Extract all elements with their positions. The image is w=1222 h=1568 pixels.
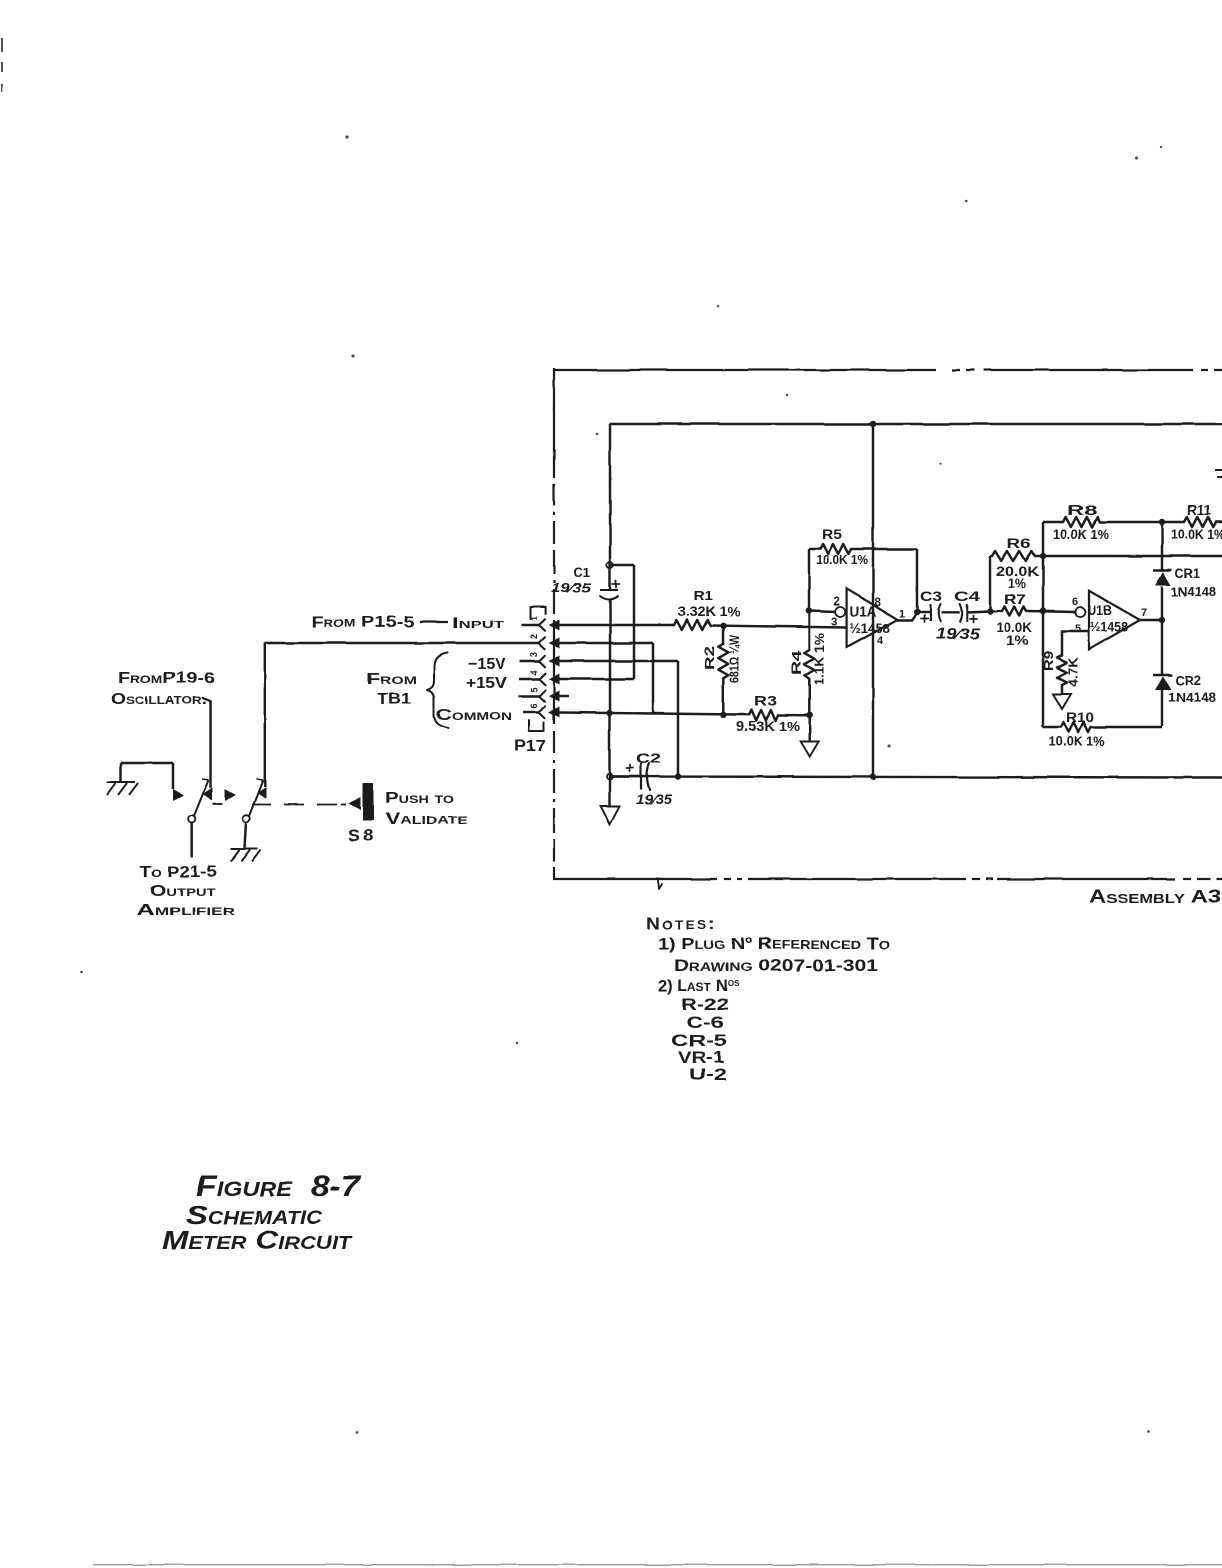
junction dot R7 / R8 vertical: [1040, 608, 1046, 614]
wire pin4 +15V horizontal: [559, 678, 634, 680]
svg-text:4: 4: [877, 635, 884, 647]
value R4 1.1K 1% (rotated): [813, 633, 827, 685]
arrowhead at switch S?A blade: [203, 788, 213, 801]
value C2 19/35: [636, 792, 673, 807]
wire R5 top right: [851, 548, 917, 550]
label C1: [573, 565, 590, 580]
value R10 10.0K 1%: [1049, 734, 1105, 749]
note last CR: [671, 1032, 727, 1050]
assembly A3 dashed border - left edge: [553, 368, 555, 879]
assembly A3 dashed border - top edge: [553, 369, 1222, 371]
svg-text:10.0K 1%: 10.0K 1%: [1171, 527, 1222, 542]
svg-text:FromP19-6: FromP19-6: [118, 670, 215, 687]
value R5 10.0K 1%: [816, 552, 868, 567]
junction dot R6 rail / R8 vertical: [1040, 553, 1046, 559]
wire R9 bottom: [1061, 685, 1063, 694]
capacitor C3: [920, 604, 940, 623]
svg-text:C-6: C-6: [686, 1014, 724, 1032]
wire input rail pin1 to R1: [559, 624, 674, 626]
resistor R6: [990, 551, 1035, 561]
label R1: [693, 588, 713, 603]
wire common rail from pin6: [559, 711, 610, 714]
pin number 2: [529, 634, 539, 639]
connector P17 pin 4 socket chevron: [539, 673, 545, 685]
connector P17 pin 4 mating arrow: [549, 674, 560, 685]
label R7: [1004, 592, 1026, 607]
wire stub left of pin 1: [521, 624, 539, 626]
svg-text:CR-5: CR-5: [671, 1032, 727, 1050]
wire stub C1 node to +15V riser: [610, 564, 634, 566]
wire CR2 top: [1161, 620, 1163, 675]
svg-text:3.32K 1%: 3.32K 1%: [678, 604, 740, 619]
pin number 4: [529, 670, 539, 675]
wire C4 to R6/R7 node: [967, 611, 990, 612]
svg-text:Notes:: Notes:: [646, 914, 717, 933]
label Push to: [385, 790, 455, 807]
label Validate: [385, 811, 468, 828]
svg-text:½1458: ½1458: [850, 620, 891, 636]
label -15V: [468, 656, 506, 673]
svg-text:19⁄35: 19⁄35: [636, 792, 673, 807]
wire R8 left top: [1043, 521, 1063, 523]
scan marks left edge: [1, 38, 3, 92]
pin label 3: [831, 617, 837, 629]
wire R5 top left: [809, 548, 820, 550]
diode CR1: [1153, 570, 1172, 586]
note last VR: [678, 1049, 724, 1067]
svg-text:6: 6: [1072, 596, 1078, 608]
note 1 line 2: [674, 957, 878, 975]
svg-text:P17: P17: [514, 738, 546, 755]
value R6 1%: [1008, 576, 1026, 591]
svg-text:3: 3: [529, 652, 539, 657]
label C4: [954, 589, 981, 604]
switch 2 blade: [249, 779, 263, 816]
svg-text:R9: R9: [1042, 651, 1056, 671]
wire output to C3: [917, 611, 930, 613]
svg-text:4.7K: 4.7K: [1067, 657, 1081, 687]
svg-text:½1458: ½1458: [1090, 620, 1128, 635]
svg-text:1%: 1%: [1006, 633, 1028, 648]
wire +15V vertical x610 (C1 top feed): [609, 424, 611, 589]
pin number 1: [529, 616, 539, 621]
connector P17 pin 6 mating arrow: [549, 707, 560, 718]
pin label 6: [1072, 596, 1078, 608]
note 1 line 1: [658, 935, 890, 953]
ground (chassis, switch 2): [231, 849, 261, 862]
mech link dashes to S8: [252, 804, 346, 806]
value R6 20.0K: [996, 564, 1039, 579]
+15V rail (inner box top): [610, 423, 1222, 425]
label TB1: [377, 691, 411, 708]
svg-text:R7: R7: [1004, 592, 1026, 607]
wire U1A output: [898, 613, 917, 620]
connector P17 pin 6 socket chevron: [539, 706, 545, 718]
wire R6 rail to right edge: [1035, 555, 1222, 557]
value CR2 1N4148: [1168, 690, 1216, 705]
label From P15-5: [311, 614, 414, 631]
svg-text:C3: C3: [920, 589, 943, 604]
value C3/C4 19/35: [936, 626, 981, 643]
label Output: [150, 883, 215, 900]
svg-text:To P21-5: To P21-5: [140, 864, 217, 881]
resistor R9: [1057, 655, 1067, 685]
svg-text:U1B: U1B: [1088, 602, 1112, 618]
diode CR2: [1153, 675, 1172, 690]
label CR1: [1175, 566, 1200, 581]
capacitor C1: [600, 580, 620, 600]
label Common: [436, 707, 512, 724]
svg-text:1.1K 1%: 1.1K 1%: [813, 633, 827, 685]
label To P21-5: [140, 864, 217, 881]
label R11: [1187, 502, 1211, 518]
svg-text:R-22: R-22: [681, 996, 729, 1014]
resistor R8: [1063, 517, 1100, 527]
svg-text:2: 2: [529, 634, 539, 639]
svg-text:R4: R4: [789, 649, 804, 675]
brace for TB1 group: [427, 653, 448, 728]
label FromP19-6: [118, 670, 215, 687]
op-amp U1B triangle: [1089, 591, 1140, 650]
ground (R9, open triangle): [1053, 694, 1071, 709]
svg-text:Common: Common: [436, 707, 512, 724]
wire U1 pin8/pin4 vertical: [872, 424, 874, 777]
wire stub left of pin 6: [523, 711, 539, 713]
svg-text:Figure 8-7: Figure 8-7: [196, 1170, 361, 1203]
svg-text:Validate: Validate: [385, 811, 468, 828]
connector P17 pin 5 socket chevron: [539, 690, 545, 702]
svg-text:1%: 1%: [1008, 576, 1026, 591]
switch 2 pivot contact: [243, 815, 250, 822]
wire C3 to C4: [941, 611, 960, 613]
svg-text:+15V: +15V: [466, 675, 507, 692]
svg-text:R5: R5: [822, 527, 843, 542]
-15V rail (bottom): [610, 777, 1222, 778]
node open dot at -15V rail x610: [607, 774, 613, 780]
connector P17 pin 3 socket chevron: [539, 655, 545, 667]
svg-text:−15V: −15V: [468, 656, 506, 673]
svg-text:5: 5: [1075, 623, 1081, 635]
wire stub left of pin 3: [520, 660, 539, 662]
pin number 6: [529, 703, 539, 708]
wire U1B output to node: [1140, 619, 1162, 621]
value R3 9.53K 1%: [736, 718, 801, 734]
junction dot -15V rail / C2 right: [675, 773, 681, 779]
svg-text:10.0K 1%: 10.0K 1%: [1049, 734, 1105, 749]
junction dot R8/R11/CR1: [1159, 519, 1165, 525]
resistor R11: [1184, 517, 1216, 527]
svg-text:Output: Output: [150, 883, 215, 900]
svg-text:681Ω ¼W: 681Ω ¼W: [728, 635, 742, 683]
value R9 4.7K (rotated): [1067, 657, 1081, 687]
wire R8 to junction: [1100, 521, 1162, 523]
svg-text:R2: R2: [702, 646, 717, 670]
note last U: [689, 1066, 727, 1084]
connector P17 outline bottom bracket: [529, 720, 544, 731]
svg-text:VR-1: VR-1: [678, 1049, 724, 1067]
wire pin2 vertical to common rail: [652, 643, 654, 714]
label Assembly A3: [1089, 886, 1221, 907]
wire pin3 -15V horizontal: [559, 660, 678, 662]
pin label 8: [875, 597, 882, 609]
value CR1 1N4148: [1171, 584, 1216, 599]
svg-text:7: 7: [1141, 607, 1147, 619]
pin label 1: [899, 608, 905, 620]
wire R7 to U1B pin6: [1027, 611, 1077, 612]
svg-text:R8: R8: [1067, 502, 1097, 518]
svg-text:5: 5: [529, 687, 539, 692]
wire CR2 bottom to R10 rail: [1161, 690, 1163, 726]
wire pin3 -15V vertical to bottom rail: [677, 661, 679, 777]
ground (chassis, left): [107, 782, 138, 795]
wire -15V rail left of C2: [610, 775, 642, 777]
U1B inverting input bubble: [1076, 607, 1086, 617]
svg-text:3: 3: [831, 617, 837, 629]
svg-text:4: 4: [529, 670, 539, 675]
label C3: [920, 589, 943, 604]
label Oscillator.: [111, 691, 207, 708]
op-amp U1A triangle: [847, 589, 898, 648]
label Input: [452, 615, 504, 632]
wire to common ground symbol: [608, 777, 610, 807]
resistor R5: [820, 544, 851, 554]
svg-text:Assembly A3: Assembly A3: [1089, 886, 1221, 907]
label R10: [1066, 710, 1094, 725]
scan speckles: [81, 135, 1163, 1433]
label S8: [348, 826, 376, 845]
resistor R4 (from pin2 node): [804, 611, 814, 679]
wire R8 left vertical x1043: [1042, 522, 1044, 727]
wire +15V riser x634 down to P17 pin4 wire: [633, 565, 635, 679]
svg-text:CR2: CR2: [1175, 673, 1201, 688]
label R2 (rotated): [702, 646, 717, 670]
junction dot output/R5: [914, 609, 920, 615]
value R7 1%: [1006, 633, 1028, 648]
connector P17 pin 3 mating arrow: [549, 656, 560, 667]
ground (R4, open triangle): [801, 741, 819, 756]
label From (TB1): [366, 671, 417, 688]
junction dot -15V rail / U1A pin4 line: [870, 774, 876, 780]
label U1B: [1088, 602, 1112, 618]
svg-text:C4: C4: [954, 589, 981, 604]
svg-text:From: From: [366, 671, 417, 688]
label C2: [636, 751, 661, 766]
svg-text:Meter Circuit: Meter Circuit: [162, 1225, 353, 1255]
svg-text:Push to: Push to: [385, 790, 455, 807]
label +15V: [466, 675, 507, 692]
svg-text:10.0K 1%: 10.0K 1%: [1053, 527, 1109, 542]
arrowhead switch 2 top: [257, 787, 266, 799]
label R4 (rotated): [789, 649, 804, 675]
label R5: [822, 527, 843, 542]
caption SCHEMATIC: [186, 1200, 323, 1230]
resistor R7: [990, 607, 1027, 616]
svg-text:From P15-5: From P15-5: [311, 614, 414, 631]
scan line bottom edge: [93, 1564, 1222, 1565]
wire switch 1 to P21-5: [190, 822, 192, 858]
svg-text:Oscillator.: Oscillator.: [111, 691, 207, 708]
resistor R10: [1061, 722, 1091, 732]
notes heading: [646, 914, 717, 933]
wire C1 bottom to common rail: [609, 599, 611, 713]
wire pin2 to bubble: [809, 611, 836, 612]
svg-text:10.0K 1%: 10.0K 1%: [816, 552, 868, 567]
wire CR1 bottom to output node: [1161, 587, 1163, 621]
svg-text:19⁄35: 19⁄35: [551, 580, 592, 595]
svg-text:19⁄35: 19⁄35: [936, 626, 981, 643]
wire R5 left vertical: [808, 549, 810, 611]
svg-text:R10: R10: [1066, 710, 1094, 725]
junction dot common rail / C1 vertical: [606, 710, 612, 716]
wire R2 bottom: [722, 678, 724, 715]
wire R10 right: [1091, 726, 1162, 728]
connector P17 outline top bracket: [530, 607, 546, 619]
node C1 top junction: [607, 562, 613, 568]
value R1 3.32K 1%: [678, 604, 740, 619]
label Amplifier: [137, 902, 235, 919]
wire R10 left: [1043, 726, 1061, 728]
wire stub left of pin 4: [519, 678, 539, 680]
label U1A: [850, 604, 877, 621]
connector P17 pin 2 socket chevron: [539, 637, 545, 649]
svg-text:Amplifier: Amplifier: [137, 902, 235, 919]
junction dot pin2 node: [806, 607, 812, 613]
svg-text:R11: R11: [1187, 502, 1211, 518]
pushbutton S8 bar: [363, 783, 374, 821]
connector P17 pin 1 mating arrow: [549, 620, 560, 631]
note 2: [658, 977, 740, 995]
svg-text:Drawing 0207-01-301: Drawing 0207-01-301: [674, 957, 878, 975]
label CR2: [1175, 673, 1201, 688]
svg-text:R1: R1: [693, 588, 713, 603]
wire R4 bottom to ground: [808, 715, 810, 741]
label R3: [754, 692, 777, 708]
svg-text:1N4148: 1N4148: [1171, 584, 1216, 599]
svg-text:C2: C2: [636, 751, 661, 766]
label U1A half 1458: [850, 620, 891, 636]
value R2 681ohm 1/4W (rotated): [728, 635, 742, 683]
mech link dash 1: [213, 803, 223, 805]
wire ground branch down: [172, 763, 174, 789]
ground (common, open triangle): [601, 806, 620, 824]
tick on bottom border: [658, 880, 662, 889]
wire pin2 line down to switch 2: [264, 643, 266, 787]
wire R11 left: [1162, 521, 1184, 523]
svg-text:1: 1: [529, 616, 539, 621]
label R6: [1007, 536, 1032, 551]
junction dot C4/R6/R7: [987, 608, 993, 614]
svg-text:1: 1: [899, 608, 905, 620]
label U1B half 1458: [1090, 620, 1128, 635]
connector P17 pin 5 mating arrow: [549, 691, 560, 702]
junction dot +15V rail / U1 pin8 line: [870, 421, 876, 427]
svg-text:TB1: TB1: [377, 691, 411, 708]
wire ground branch up: [120, 763, 122, 782]
assembly A3 dashed border - bottom edge: [553, 878, 1222, 880]
arrowhead into switch 2: [225, 789, 236, 801]
value C1 19/35: [551, 580, 592, 595]
connector P17 pin 2 mating arrow: [549, 638, 560, 649]
wire from oscillator label down: [203, 698, 211, 787]
caption METER CIRCUIT: [162, 1225, 353, 1255]
wire R3 to R4 bottom: [778, 714, 810, 717]
wire pin2 from oscillator switch: [265, 642, 539, 644]
junction dot R1/R2: [720, 623, 726, 629]
svg-text:R6: R6: [1007, 536, 1032, 551]
svg-text:2: 2: [834, 596, 840, 608]
svg-text:U-2: U-2: [689, 1066, 727, 1084]
svg-text:R3: R3: [754, 692, 777, 708]
svg-text:CR1: CR1: [1175, 566, 1200, 581]
capacitor C4: [960, 604, 978, 623]
switch 1 pivot contact: [188, 815, 195, 822]
junction dot R3/R4/ground: [807, 712, 813, 718]
wire pin5 stub: [559, 695, 569, 697]
value R11 10.0K 1%: [1171, 527, 1222, 542]
svg-text:2) Last Nos: 2) Last Nos: [658, 977, 740, 995]
note last R: [681, 996, 729, 1014]
pin label 2: [834, 596, 840, 608]
svg-text:9.53K 1%: 9.53K 1%: [736, 718, 801, 734]
note last C: [686, 1014, 724, 1032]
pin label 7: [1141, 607, 1147, 619]
pin number 3: [529, 652, 539, 657]
svg-text:1) Plug Nº Referenced To: 1) Plug Nº Referenced To: [658, 935, 890, 953]
wire common rail continue: [610, 713, 750, 715]
wire pin2 right segment: [559, 642, 653, 644]
dash between label and Input: [420, 620, 448, 622]
wire R5 right vertical to output: [916, 549, 918, 612]
arrowhead into switch 1: [173, 789, 184, 801]
wire common vertical to -15V rail: [608, 713, 610, 777]
switch 1 blade: [194, 779, 209, 816]
wire R6 left vertical: [989, 556, 991, 611]
wire ground branch top: [121, 762, 173, 764]
wire stub left of pin 5: [518, 695, 539, 697]
U1A inverting input bubble: [835, 607, 845, 617]
label R9 (rotated): [1042, 651, 1056, 671]
value R8 10.0K 1%: [1053, 527, 1109, 542]
wire R2 top: [722, 626, 724, 644]
wire R11 to right edge: [1216, 521, 1222, 523]
pin number 5: [529, 687, 539, 692]
wire R4 bottom segment: [808, 678, 810, 715]
wire pin5 to R9: [1062, 631, 1089, 655]
resistor R1: [674, 620, 710, 630]
label R8: [1067, 502, 1097, 518]
svg-text:C1: C1: [573, 565, 590, 580]
caption FIGURE 8-7: [196, 1170, 361, 1203]
wire CR1 top: [1161, 522, 1163, 570]
wire R1 to U1A pin3: [710, 626, 847, 628]
cut-off component marks right edge: [1215, 470, 1222, 477]
pushbutton S8 arrow: [349, 797, 361, 810]
pin label 5: [1075, 623, 1081, 635]
connector P17 pin 1 socket chevron: [539, 619, 545, 631]
junction dot R2/R3 on common rail: [720, 712, 726, 718]
svg-text:8: 8: [875, 597, 882, 609]
svg-text:Input: Input: [452, 615, 504, 632]
svg-text:S8: S8: [348, 826, 376, 845]
capacitor C2: [626, 763, 650, 790]
label P17: [514, 738, 546, 755]
svg-text:1N4148: 1N4148: [1168, 690, 1216, 705]
wire switch 2 to ground: [245, 822, 247, 848]
value R7 10.0K: [996, 620, 1032, 635]
junction dot U1B output: [1159, 617, 1165, 623]
resistor R2: [718, 644, 728, 678]
svg-text:6: 6: [529, 703, 539, 708]
